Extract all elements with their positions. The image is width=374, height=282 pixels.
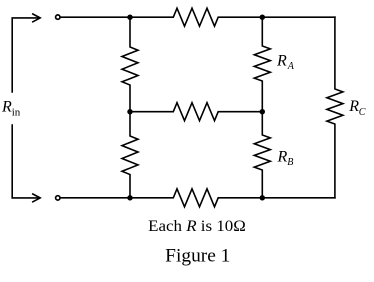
- svg-text:R: R: [277, 148, 288, 165]
- svg-text:Figure 1: Figure 1: [165, 245, 230, 266]
- svg-text:R: R: [1, 98, 12, 115]
- svg-text:C: C: [359, 107, 366, 118]
- svg-text:B: B: [287, 157, 293, 168]
- svg-text:R: R: [276, 53, 287, 70]
- svg-text:R: R: [348, 98, 359, 115]
- svg-text:A: A: [287, 61, 295, 72]
- svg-text:in: in: [12, 107, 21, 119]
- svg-text:Each R is 10Ω: Each R is 10Ω: [148, 218, 246, 235]
